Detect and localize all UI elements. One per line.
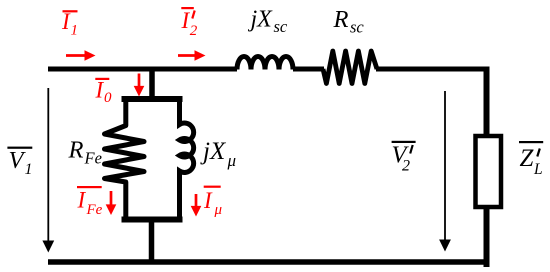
- svg-text:L: L: [533, 161, 543, 178]
- voltage arrow V2': [439, 91, 451, 252]
- resistor R_sc: [323, 51, 377, 84]
- inductor jX_sc: [237, 57, 293, 70]
- svg-text:2: 2: [402, 158, 410, 175]
- svg-text:R: R: [68, 137, 84, 164]
- label V1: [7, 147, 32, 178]
- wire top-right segment: [376, 67, 489, 72]
- svg-text:R: R: [333, 6, 349, 33]
- label jX_sc: [248, 7, 288, 36]
- current arrow I0 (red, down): [134, 74, 145, 97]
- wire right upper drop: [484, 67, 490, 138]
- label I2' (red): [181, 7, 198, 39]
- current arrow IFe (red, down): [106, 191, 117, 215]
- current arrow I1 (red): [66, 50, 96, 61]
- label V2': [392, 141, 416, 175]
- label Imu (red): [203, 186, 223, 218]
- svg-text:I: I: [61, 9, 71, 34]
- svg-text:sc: sc: [274, 17, 288, 36]
- current arrow I2' (red): [178, 50, 206, 61]
- wire stub junction to shunt box top: [149, 69, 155, 99]
- svg-text:μ: μ: [214, 202, 223, 218]
- wire stub shunt box bottom to bottom wire: [149, 219, 155, 262]
- svg-text:I: I: [203, 188, 213, 213]
- label R_Fe: [68, 137, 102, 168]
- svg-text:1: 1: [25, 161, 33, 178]
- svg-text:Z: Z: [520, 145, 535, 172]
- label jX_mu: [200, 138, 236, 170]
- label I0 (red): [95, 78, 113, 107]
- wire right lower drop: [484, 206, 490, 267]
- svg-text:0: 0: [104, 90, 112, 106]
- svg-text:2: 2: [190, 23, 198, 39]
- label R_sc: [333, 6, 365, 37]
- wire bottom: [48, 259, 490, 265]
- svg-text:μ: μ: [227, 151, 237, 170]
- wire top-middle segment: [293, 67, 324, 72]
- svg-text:I: I: [95, 78, 105, 103]
- svg-text:1: 1: [71, 23, 79, 39]
- svg-text:I: I: [77, 188, 87, 213]
- label IFe (red): [77, 186, 103, 218]
- svg-text:Fe: Fe: [86, 202, 103, 218]
- svg-text:sc: sc: [350, 17, 364, 36]
- svg-text:Fe: Fe: [84, 149, 102, 168]
- inductor jX_mu (right side of shunt box): [180, 96, 194, 223]
- shunt box bottom bar: [122, 217, 183, 223]
- svg-text:jX: jX: [248, 7, 274, 33]
- svg-text:jX: jX: [200, 138, 227, 165]
- voltage arrow V1: [42, 88, 54, 253]
- resistor R_Fe (left side of shunt box): [105, 96, 145, 223]
- shunt box top bar: [122, 96, 183, 102]
- label I1 (red): [61, 9, 78, 39]
- wire top-left segment: [48, 67, 237, 72]
- current arrow Imu (red, down): [191, 194, 202, 217]
- load box Z'_L: [476, 136, 502, 207]
- label Z'_L: [519, 141, 543, 178]
